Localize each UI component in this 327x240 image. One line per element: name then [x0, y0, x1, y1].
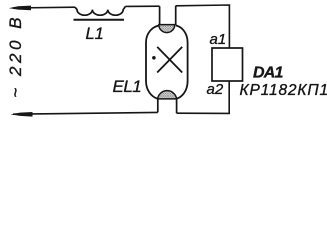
wire: top middle, inductor to lamp top-left neck [126, 5, 160, 7]
svg-text:~ 220 В: ~ 220 В [6, 14, 25, 98]
svg-text:EL1: EL1 [113, 77, 142, 96]
svg-text:L1: L1 [86, 25, 104, 43]
arrow: bottom mains terminal pointing left [11, 112, 33, 117]
lamp EL1 top electrode (hatched) [159, 25, 175, 33]
lamp EL1 cross (X) [157, 47, 182, 73]
svg-text:DA1: DA1 [253, 65, 284, 82]
IC DA1 box [212, 48, 243, 81]
lamp EL1 top neck [160, 6, 176, 26]
wire: DA1 pin a2 down and left to lamp bottom-right neck [177, 81, 230, 113]
svg-text:КР1182КП1: КР1182КП1 [240, 82, 327, 99]
lamp EL1 body outline [146, 25, 188, 98]
wire: top-left horizontal from arrow to inductor [13, 6, 75, 9]
wire: bottom-left horizontal from lamp to arrow [13, 112, 158, 114]
svg-text:a1: a1 [210, 31, 227, 48]
lamp EL1 bottom electrode (hatched) [158, 91, 177, 99]
lamp EL1 bottom neck [158, 99, 177, 113]
wire: top right, lamp top-right neck to corner, down to DA1 pin a1 [176, 5, 230, 48]
lamp EL1 gas dot [152, 56, 156, 60]
inductor L1 coil arcs [75, 6, 126, 15]
arrow: top mains terminal pointing left [9, 6, 31, 11]
svg-text:a2: a2 [207, 81, 224, 98]
inductor L1 core line [74, 19, 125, 21]
